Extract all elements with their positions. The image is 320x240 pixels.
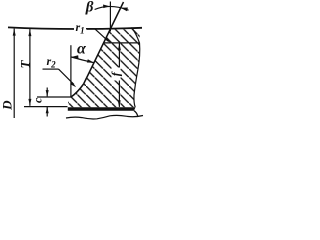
svg-text:α: α [77,41,87,58]
svg-text:T: T [18,59,33,68]
svg-text:β: β [85,0,94,15]
svg-text:c: c [31,97,45,103]
svg-text:D: D [0,100,14,111]
